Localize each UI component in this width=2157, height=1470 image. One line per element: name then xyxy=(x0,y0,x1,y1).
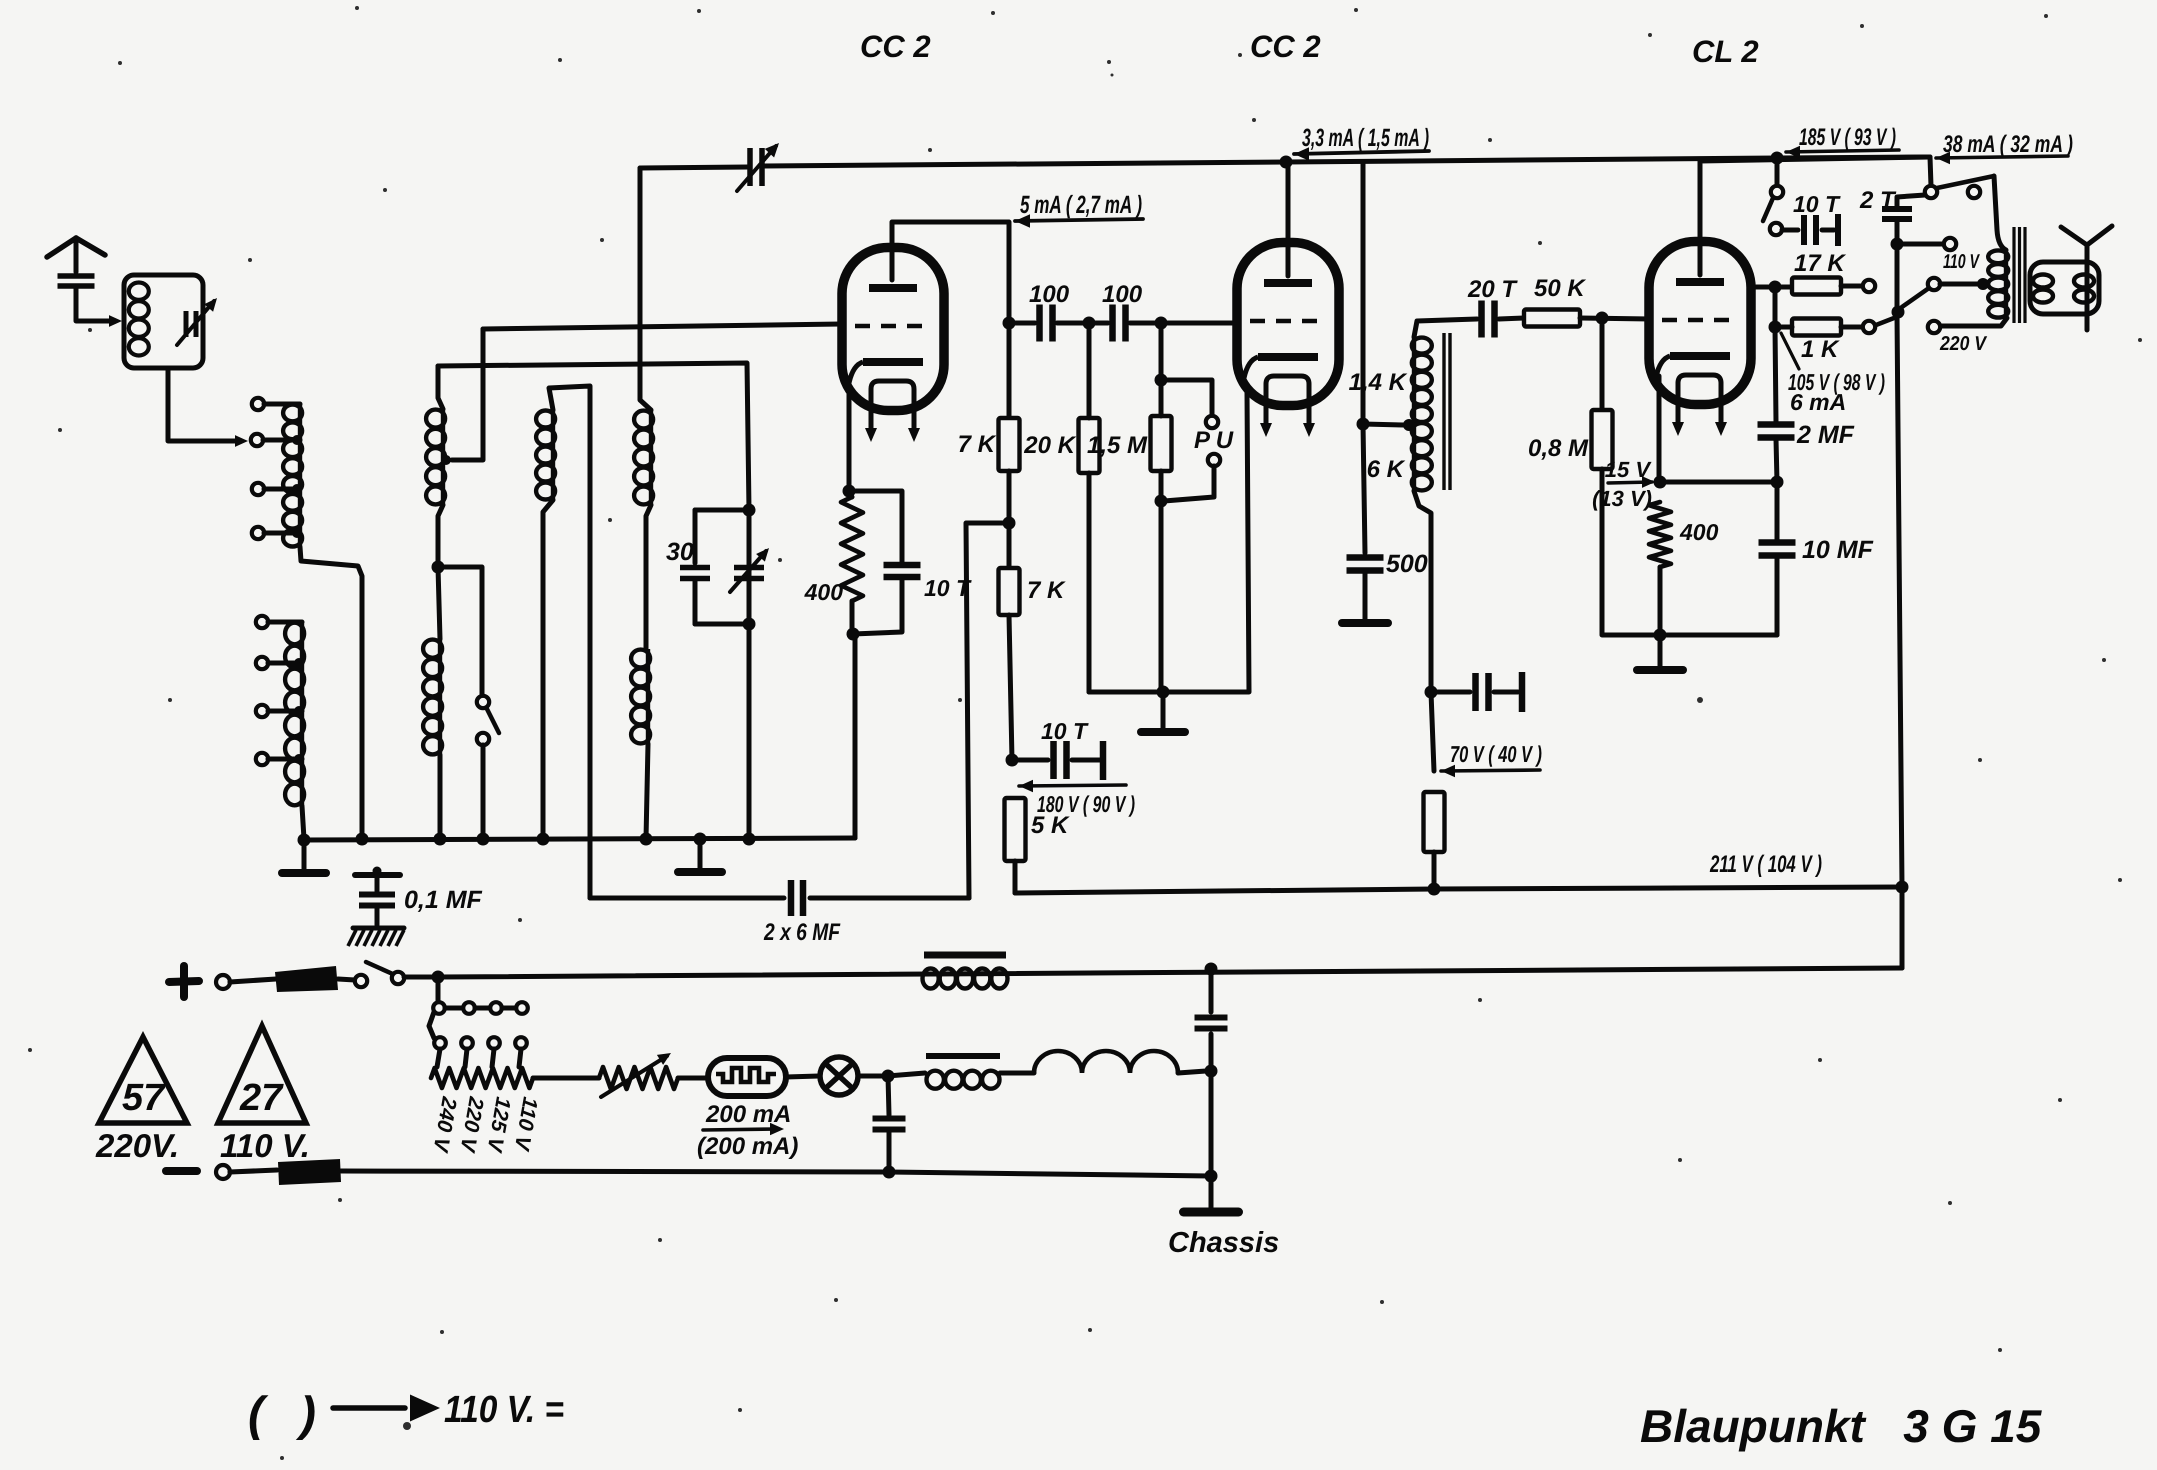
selector stem 1 xyxy=(437,1049,440,1067)
note arrowhead xyxy=(410,1395,440,1422)
svg-text:20 K: 20 K xyxy=(1023,432,1076,459)
junction rail L4b xyxy=(640,833,653,846)
loudspeaker fork left xyxy=(2061,227,2087,245)
wire transformer bottom hook xyxy=(1414,491,1431,692)
wire L3 junction to coil L3b xyxy=(438,567,440,639)
junction tap A4 xyxy=(292,528,302,538)
svg-text:2 MF: 2 MF xyxy=(1796,421,1855,449)
wire ground stem bus xyxy=(1161,692,1166,728)
wire 2T link xyxy=(1897,195,1925,206)
svg-text:185 V ( 93 V ): 185 V ( 93 V ) xyxy=(1799,124,1896,151)
junction PU bottom xyxy=(1155,495,1168,508)
capacitor antenna series xyxy=(58,276,95,286)
core lamination 2 xyxy=(1448,333,1451,490)
svg-text:0,1 MF: 0,1 MF xyxy=(404,886,483,914)
capacitor trimmer in frame antenna xyxy=(186,311,196,337)
resistor 50K xyxy=(1524,310,1580,327)
speckle 4 xyxy=(1860,24,1864,28)
speckle 0 xyxy=(355,6,359,10)
terminal bar 10T AVC xyxy=(1100,741,1107,780)
wire tone cap xyxy=(1782,228,1798,233)
speckle 22 xyxy=(28,1048,32,1052)
svg-text:100: 100 xyxy=(1102,281,1143,308)
junction tap A8 xyxy=(294,754,304,764)
speckle 42 xyxy=(1818,1058,1822,1062)
speckle 1 xyxy=(697,9,701,13)
wire B+ long vertical xyxy=(1897,244,1902,887)
junction bias bus left xyxy=(1654,629,1667,642)
wire terminal A3 tap xyxy=(264,487,300,492)
svg-text:17 K: 17 K xyxy=(1794,250,1846,277)
capacitor 100 second xyxy=(1113,305,1126,342)
loudspeaker coil loops right xyxy=(2074,275,2094,303)
arrow shaft 70V xyxy=(1441,770,1540,771)
junction lamp node xyxy=(882,1070,895,1083)
terminal bar 0.1MF xyxy=(355,872,400,878)
wire tone switch stem xyxy=(1775,158,1780,186)
speckle 9 xyxy=(600,238,604,242)
svg-text:5 K: 5 K xyxy=(1031,812,1070,839)
svg-text:Chassis: Chassis xyxy=(1168,1227,1279,1259)
wire B+ drop vertical xyxy=(1930,157,1931,186)
tube V2 CC2 xyxy=(1237,243,1339,438)
wire 2MF top xyxy=(1775,327,1776,422)
wire coil L4b to ground rail xyxy=(646,744,648,839)
hose loops to chassis node xyxy=(1034,1051,1178,1073)
junction V3 grid node xyxy=(1596,312,1609,325)
wire mains positive rail xyxy=(438,968,1902,977)
core output 2 xyxy=(2018,227,2021,323)
wire lamp to choke2 xyxy=(888,1073,925,1076)
svg-text:27: 27 xyxy=(239,1077,284,1119)
selector left curve xyxy=(429,1012,434,1038)
wire grid row segment 3 xyxy=(1130,321,1237,326)
capacitor heater bypass xyxy=(873,1119,906,1130)
speckle 25 xyxy=(518,918,522,922)
terminal bar grid return xyxy=(1519,672,1526,712)
plus symbol xyxy=(169,966,199,997)
arrow shaft trimmer frame antenna xyxy=(177,301,214,345)
ground chassis xyxy=(1184,1208,1239,1217)
selector top circle 3 xyxy=(490,1002,502,1014)
svg-text:15 V: 15 V xyxy=(1605,457,1653,482)
loudspeaker coil box xyxy=(2030,262,2099,314)
speckle 35 xyxy=(1648,33,1652,37)
wire rheostat to barretter xyxy=(678,1076,708,1081)
lever mid-tap switch xyxy=(1902,288,1929,307)
wire terminal A8 tap xyxy=(268,757,302,762)
wire ground rail xyxy=(304,838,855,840)
svg-text:6 K: 6 K xyxy=(1367,456,1406,483)
svg-text:220 V: 220 V xyxy=(1939,333,1987,355)
speckle 27 xyxy=(1478,998,1482,1002)
wire coil L3 to junction xyxy=(438,505,443,567)
coil L4b oscillator feedback xyxy=(631,649,650,744)
wire frame antenna to band switch xyxy=(168,368,240,441)
selector top link 1 xyxy=(445,1006,463,1011)
speckle 44 xyxy=(1488,138,1492,142)
wire terminal A5 to coil L2 xyxy=(268,620,302,625)
svg-text:20 T: 20 T xyxy=(1467,276,1518,303)
junction ground node left xyxy=(298,834,311,847)
svg-text:7 K: 7 K xyxy=(958,431,997,458)
speckle 11 xyxy=(1538,241,1542,245)
junction V1 cathode xyxy=(843,485,856,498)
junction coil L3 tap xyxy=(441,455,451,465)
terminal minus xyxy=(216,1165,230,1179)
speckle 16 xyxy=(1380,1300,1384,1304)
arrowhead rheostat xyxy=(657,1053,671,1065)
wire 1.5M top xyxy=(1159,323,1164,416)
wire chassis ground stem xyxy=(1209,1176,1214,1208)
wire terminal A4 tap xyxy=(264,531,300,536)
wire trimmer branch xyxy=(747,510,752,624)
arrowhead 15V xyxy=(1642,476,1655,488)
speckle 17 xyxy=(1948,1201,1952,1205)
wire 10MF bottom xyxy=(1775,557,1780,635)
resistor 7K anode load V1 xyxy=(999,418,1020,471)
speckle 3 xyxy=(1354,8,1358,12)
arrow shaft 5mA xyxy=(1015,219,1143,221)
svg-text:38 mA ( 32 mA ): 38 mA ( 32 mA ) xyxy=(1943,131,2073,158)
antenna arm right xyxy=(76,238,105,255)
wire to 10T cap xyxy=(1012,758,1048,763)
junction minus rail lamp cap xyxy=(883,1166,896,1179)
wire terminal A6 tap xyxy=(268,661,302,666)
wire rail up to cathode network V1 xyxy=(853,634,858,838)
arrow shaft 38mA xyxy=(1936,156,2068,158)
svg-text:30: 30 xyxy=(666,538,694,566)
core output 1 xyxy=(2012,227,2015,323)
speckle 5 xyxy=(2044,14,2048,18)
selector top link 3 xyxy=(502,1006,516,1011)
selector top circle 4 xyxy=(516,1002,528,1014)
svg-text:200 mA: 200 mA xyxy=(705,1101,791,1128)
lever tone switch xyxy=(1763,198,1773,221)
speckle 15 xyxy=(440,1330,444,1334)
fuse upper xyxy=(275,966,338,992)
terminal plus xyxy=(216,975,230,989)
wire ground stem left xyxy=(302,840,307,869)
junction mains selector xyxy=(432,971,445,984)
speckle 29 xyxy=(658,1238,662,1242)
arrowhead 200mA xyxy=(770,1123,784,1136)
wire PU branch lower xyxy=(1164,466,1214,501)
wire 1K to terminal xyxy=(1841,325,1862,330)
terminal mains switch left xyxy=(355,975,367,987)
resistor 400 bias V3 xyxy=(1649,502,1671,567)
coil output transformer primary xyxy=(1988,250,2008,317)
capacitor mains RF 1 xyxy=(1195,1018,1228,1029)
wire cathode bus V2 xyxy=(1089,392,1249,692)
choke 2 core bar xyxy=(926,1053,1000,1059)
capacitor tuning (variable) in top rail xyxy=(750,148,762,186)
wire wave switch to ground rail xyxy=(481,745,486,839)
wire 5K to HT return rail xyxy=(1013,861,1018,893)
resistor 0.8M xyxy=(1592,410,1613,469)
svg-text:500: 500 xyxy=(1386,550,1428,578)
junction 20K top xyxy=(1083,317,1096,330)
junction 110V branch xyxy=(1891,238,1904,251)
resistor 1K xyxy=(1792,319,1841,336)
wire selector feed xyxy=(436,977,441,1002)
svg-text:(13 V): (13 V) xyxy=(1592,486,1652,511)
wire transformer top hook xyxy=(1414,319,1477,337)
capacitor 10T cathode V1 xyxy=(884,565,921,577)
svg-text:70 V ( 40 V ): 70 V ( 40 V ) xyxy=(1450,741,1542,767)
resistor hum filter xyxy=(1424,792,1445,852)
speckle 6 xyxy=(1107,60,1111,64)
resistor 400 bias V1 xyxy=(841,497,863,601)
resistor rheostat xyxy=(599,1067,678,1089)
speckle 2 xyxy=(991,11,995,15)
speckle 41 xyxy=(1088,1328,1092,1332)
terminal tone switch lower xyxy=(1770,223,1782,235)
wire 0.8M top xyxy=(1600,318,1605,410)
wire 0.1MF stem lower xyxy=(375,906,380,925)
junction 1K node xyxy=(1769,321,1782,334)
speckle 24 xyxy=(1697,697,1703,703)
selector stem 2 xyxy=(465,1049,467,1067)
wire ground stem mid xyxy=(698,839,703,868)
speckle 32 xyxy=(1912,1414,1916,1418)
wire 400 to bias bus xyxy=(1658,567,1663,635)
svg-text:211 V ( 104 V ): 211 V ( 104 V ) xyxy=(1709,851,1822,878)
wire 10MF top xyxy=(1775,482,1780,540)
terminal A4 xyxy=(252,527,264,539)
speckle 18 xyxy=(280,1456,284,1460)
speckle 43 xyxy=(608,518,612,522)
wire chassis stem mid xyxy=(1209,1034,1214,1176)
terminal PU lower xyxy=(1208,454,1220,466)
junction cross link right xyxy=(1771,476,1784,489)
wire 10T cap to terminal xyxy=(1072,758,1100,763)
svg-text:50 K: 50 K xyxy=(1534,275,1586,302)
terminal A6 xyxy=(256,657,268,669)
junction 10T tap xyxy=(1006,754,1019,767)
wire coil L2 bottom to ground node xyxy=(302,806,304,839)
junction tap A6 xyxy=(294,658,304,668)
junction output switch node xyxy=(1892,306,1905,319)
wire junction to wave switch xyxy=(438,567,482,695)
speckle 23 xyxy=(928,148,932,152)
antenna arm left xyxy=(47,238,76,257)
resistor 5K xyxy=(1005,798,1026,861)
wire terminal A2 tap xyxy=(263,438,300,443)
wire coil L4 to coil L4b xyxy=(646,505,651,649)
selector top circle 1 xyxy=(433,1002,445,1014)
arrowhead 180V xyxy=(1019,780,1033,793)
junction rail switch xyxy=(477,833,490,846)
wire lamp to junction xyxy=(858,1074,888,1079)
wire to transformer tap xyxy=(1363,424,1404,425)
wire 7K2 down xyxy=(1009,615,1012,760)
lamp dial xyxy=(820,1057,858,1095)
wire grid row segment 1 xyxy=(1009,321,1035,326)
svg-text:10 MF: 10 MF xyxy=(1802,536,1874,564)
junction 500/transformer xyxy=(1357,418,1370,431)
wire lever tip to primary top xyxy=(1994,176,2006,250)
coil AF transformer primary xyxy=(1412,337,1432,491)
svg-text:220V.: 220V. xyxy=(95,1127,179,1164)
svg-text:110 V. =: 110 V. = xyxy=(444,1389,564,1431)
core output 3 xyxy=(2023,227,2026,323)
wire V1 cathode lead xyxy=(847,378,852,491)
nub 0.1MF xyxy=(373,867,382,876)
svg-text:400: 400 xyxy=(1679,519,1719,545)
svg-text:10 T: 10 T xyxy=(1041,718,1089,744)
junction tap A2 xyxy=(292,435,302,445)
junction chassis stem top xyxy=(1205,963,1218,976)
wire barretter to lamp xyxy=(786,1076,819,1077)
arrowhead of variable-capacitor symbol xyxy=(765,143,779,158)
loudspeaker coil loops left xyxy=(2033,275,2053,303)
terminal mains switch right xyxy=(392,972,404,984)
terminal bar tone xyxy=(1835,214,1841,246)
svg-text:57: 57 xyxy=(122,1077,166,1119)
hatched ground strokes xyxy=(348,930,404,946)
selector top circle 2 xyxy=(463,1002,475,1014)
speckle 34 xyxy=(1238,53,1242,57)
loudspeaker stem xyxy=(2085,245,2090,330)
wire mid-tap to primary xyxy=(1940,282,1980,287)
speckle 21 xyxy=(58,428,62,432)
junction 7K mid xyxy=(1003,517,1016,530)
arrowhead 70V xyxy=(1441,765,1455,778)
junction padder bottom xyxy=(743,618,756,631)
wire resistor to HT rail xyxy=(1432,852,1437,889)
resistor 1.5M grid leak xyxy=(1151,416,1172,471)
svg-text:5 mA ( 2,7 mA ): 5 mA ( 2,7 mA ) xyxy=(1020,191,1142,219)
capacitor 10MF xyxy=(1759,543,1796,556)
wire 1K left stub xyxy=(1775,325,1792,330)
wire V1 grid line xyxy=(483,324,841,329)
wire coil bus top xyxy=(438,363,749,510)
capacitor trimmer oscillator xyxy=(734,568,764,579)
wire padder top bar xyxy=(695,508,749,513)
arrow shaft rheostat xyxy=(601,1056,667,1097)
selector stem 3 xyxy=(492,1049,494,1067)
speckle 28 xyxy=(248,258,252,262)
wire dropper line right xyxy=(810,896,969,901)
wire primary inner spine xyxy=(2004,250,2008,318)
terminal output switch pivot xyxy=(1925,186,1937,198)
wire trimmer to ground rail xyxy=(747,624,752,839)
wire HT top rail middle xyxy=(764,157,1930,166)
tube V3 CL2 xyxy=(1649,242,1751,437)
capacitor 500 xyxy=(1347,558,1384,571)
wire antenna to frame box xyxy=(76,287,115,321)
wire transformer down xyxy=(1431,692,1434,771)
ground G4 xyxy=(1342,619,1388,627)
antenna stem xyxy=(74,238,79,272)
junction rail trimmer xyxy=(743,833,756,846)
wire screen down xyxy=(1773,287,1778,327)
terminal A8 xyxy=(256,753,268,765)
svg-text:400: 400 xyxy=(804,579,844,605)
arrow shaft trimmer oscillator xyxy=(730,551,766,592)
terminal output switch contact xyxy=(1968,186,1980,198)
resistor mains dropper xyxy=(431,1068,533,1088)
wire loops to chassis stem xyxy=(1178,1071,1206,1073)
pointer 105V xyxy=(1781,333,1799,369)
arrow shaft 15V xyxy=(1608,482,1652,483)
wire HT return rail xyxy=(1015,887,1902,893)
speckle 8 xyxy=(383,188,387,192)
hatched ground bar xyxy=(353,926,404,931)
wire coil L5 top hook to dropper xyxy=(549,386,590,898)
speckle 31 xyxy=(1111,74,1114,77)
wire V2 anode lead xyxy=(1286,162,1291,276)
arrowhead trimmer oscillator xyxy=(756,548,769,562)
speckle 7 xyxy=(118,61,122,65)
wire coil L3b to ground rail xyxy=(438,755,443,839)
wire choke2 out xyxy=(1000,1071,1034,1076)
coil L3b RF secondary xyxy=(423,639,442,755)
wire V3 cathode lead xyxy=(1657,376,1662,482)
arrowhead 38mA xyxy=(1936,152,1950,165)
svg-text:7 K: 7 K xyxy=(1027,577,1066,604)
speckle 33 xyxy=(558,58,562,62)
wire 1.5M bottom xyxy=(1159,471,1164,692)
svg-text:6 mA: 6 mA xyxy=(1790,389,1846,415)
junction rail L5 xyxy=(537,833,550,846)
junction rail ground stem xyxy=(694,833,707,846)
junction chassis bottom xyxy=(1205,1170,1218,1183)
core lamination 1 xyxy=(1442,333,1445,490)
tube V1 CC2 xyxy=(842,248,944,443)
wire 10T branch top xyxy=(849,491,902,562)
svg-text:1 K: 1 K xyxy=(1801,336,1840,363)
arrow shaft 200mA xyxy=(703,1129,778,1130)
lever 1K switch xyxy=(1876,318,1894,325)
capacitor grid return xyxy=(1476,673,1489,711)
coil L2 antenna secondary xyxy=(285,622,304,806)
selector top link 2 xyxy=(475,1006,490,1011)
svg-text:CC 2: CC 2 xyxy=(1250,29,1321,64)
wire terminal A1 to coil L1 xyxy=(264,402,300,407)
speckle 19 xyxy=(1678,1158,1682,1162)
junction L1-return on ground rail xyxy=(356,833,369,846)
terminal 17K xyxy=(1863,280,1875,292)
barretter outline xyxy=(708,1058,786,1096)
wire V3 anode lead xyxy=(1700,157,1928,275)
loudspeaker fork right xyxy=(2087,226,2112,245)
ground G2 xyxy=(678,868,722,876)
wire 17K to terminal xyxy=(1841,284,1862,289)
wire to 110V terminal xyxy=(1897,242,1943,247)
ground G3 xyxy=(1141,728,1185,736)
wire coil L5 bottom to ground rail xyxy=(543,500,553,839)
arrowhead trimmer frame antenna xyxy=(204,298,217,312)
wire 7K to 7K xyxy=(1007,471,1012,568)
svg-text:1,5 M: 1,5 M xyxy=(1087,432,1148,459)
arrow shaft of variable-capacitor symbol xyxy=(737,146,776,191)
wire coil L3 top hook xyxy=(438,366,443,409)
wire 50K to V3 grid xyxy=(1580,318,1651,319)
junction 15V node xyxy=(1654,476,1667,489)
speckle 47 xyxy=(958,698,962,702)
wire bias resistor bottom xyxy=(850,601,855,634)
capacitor 30 padder xyxy=(680,568,710,579)
junction tap A3 xyxy=(292,484,302,494)
speckle 13 xyxy=(1252,118,1256,122)
terminal mid-tap xyxy=(1928,278,1940,290)
wire switch to selector node xyxy=(404,975,438,980)
speckle 30 xyxy=(403,1422,411,1430)
choke 2 winding xyxy=(927,1071,1000,1089)
wire plus to fuse xyxy=(230,979,276,982)
